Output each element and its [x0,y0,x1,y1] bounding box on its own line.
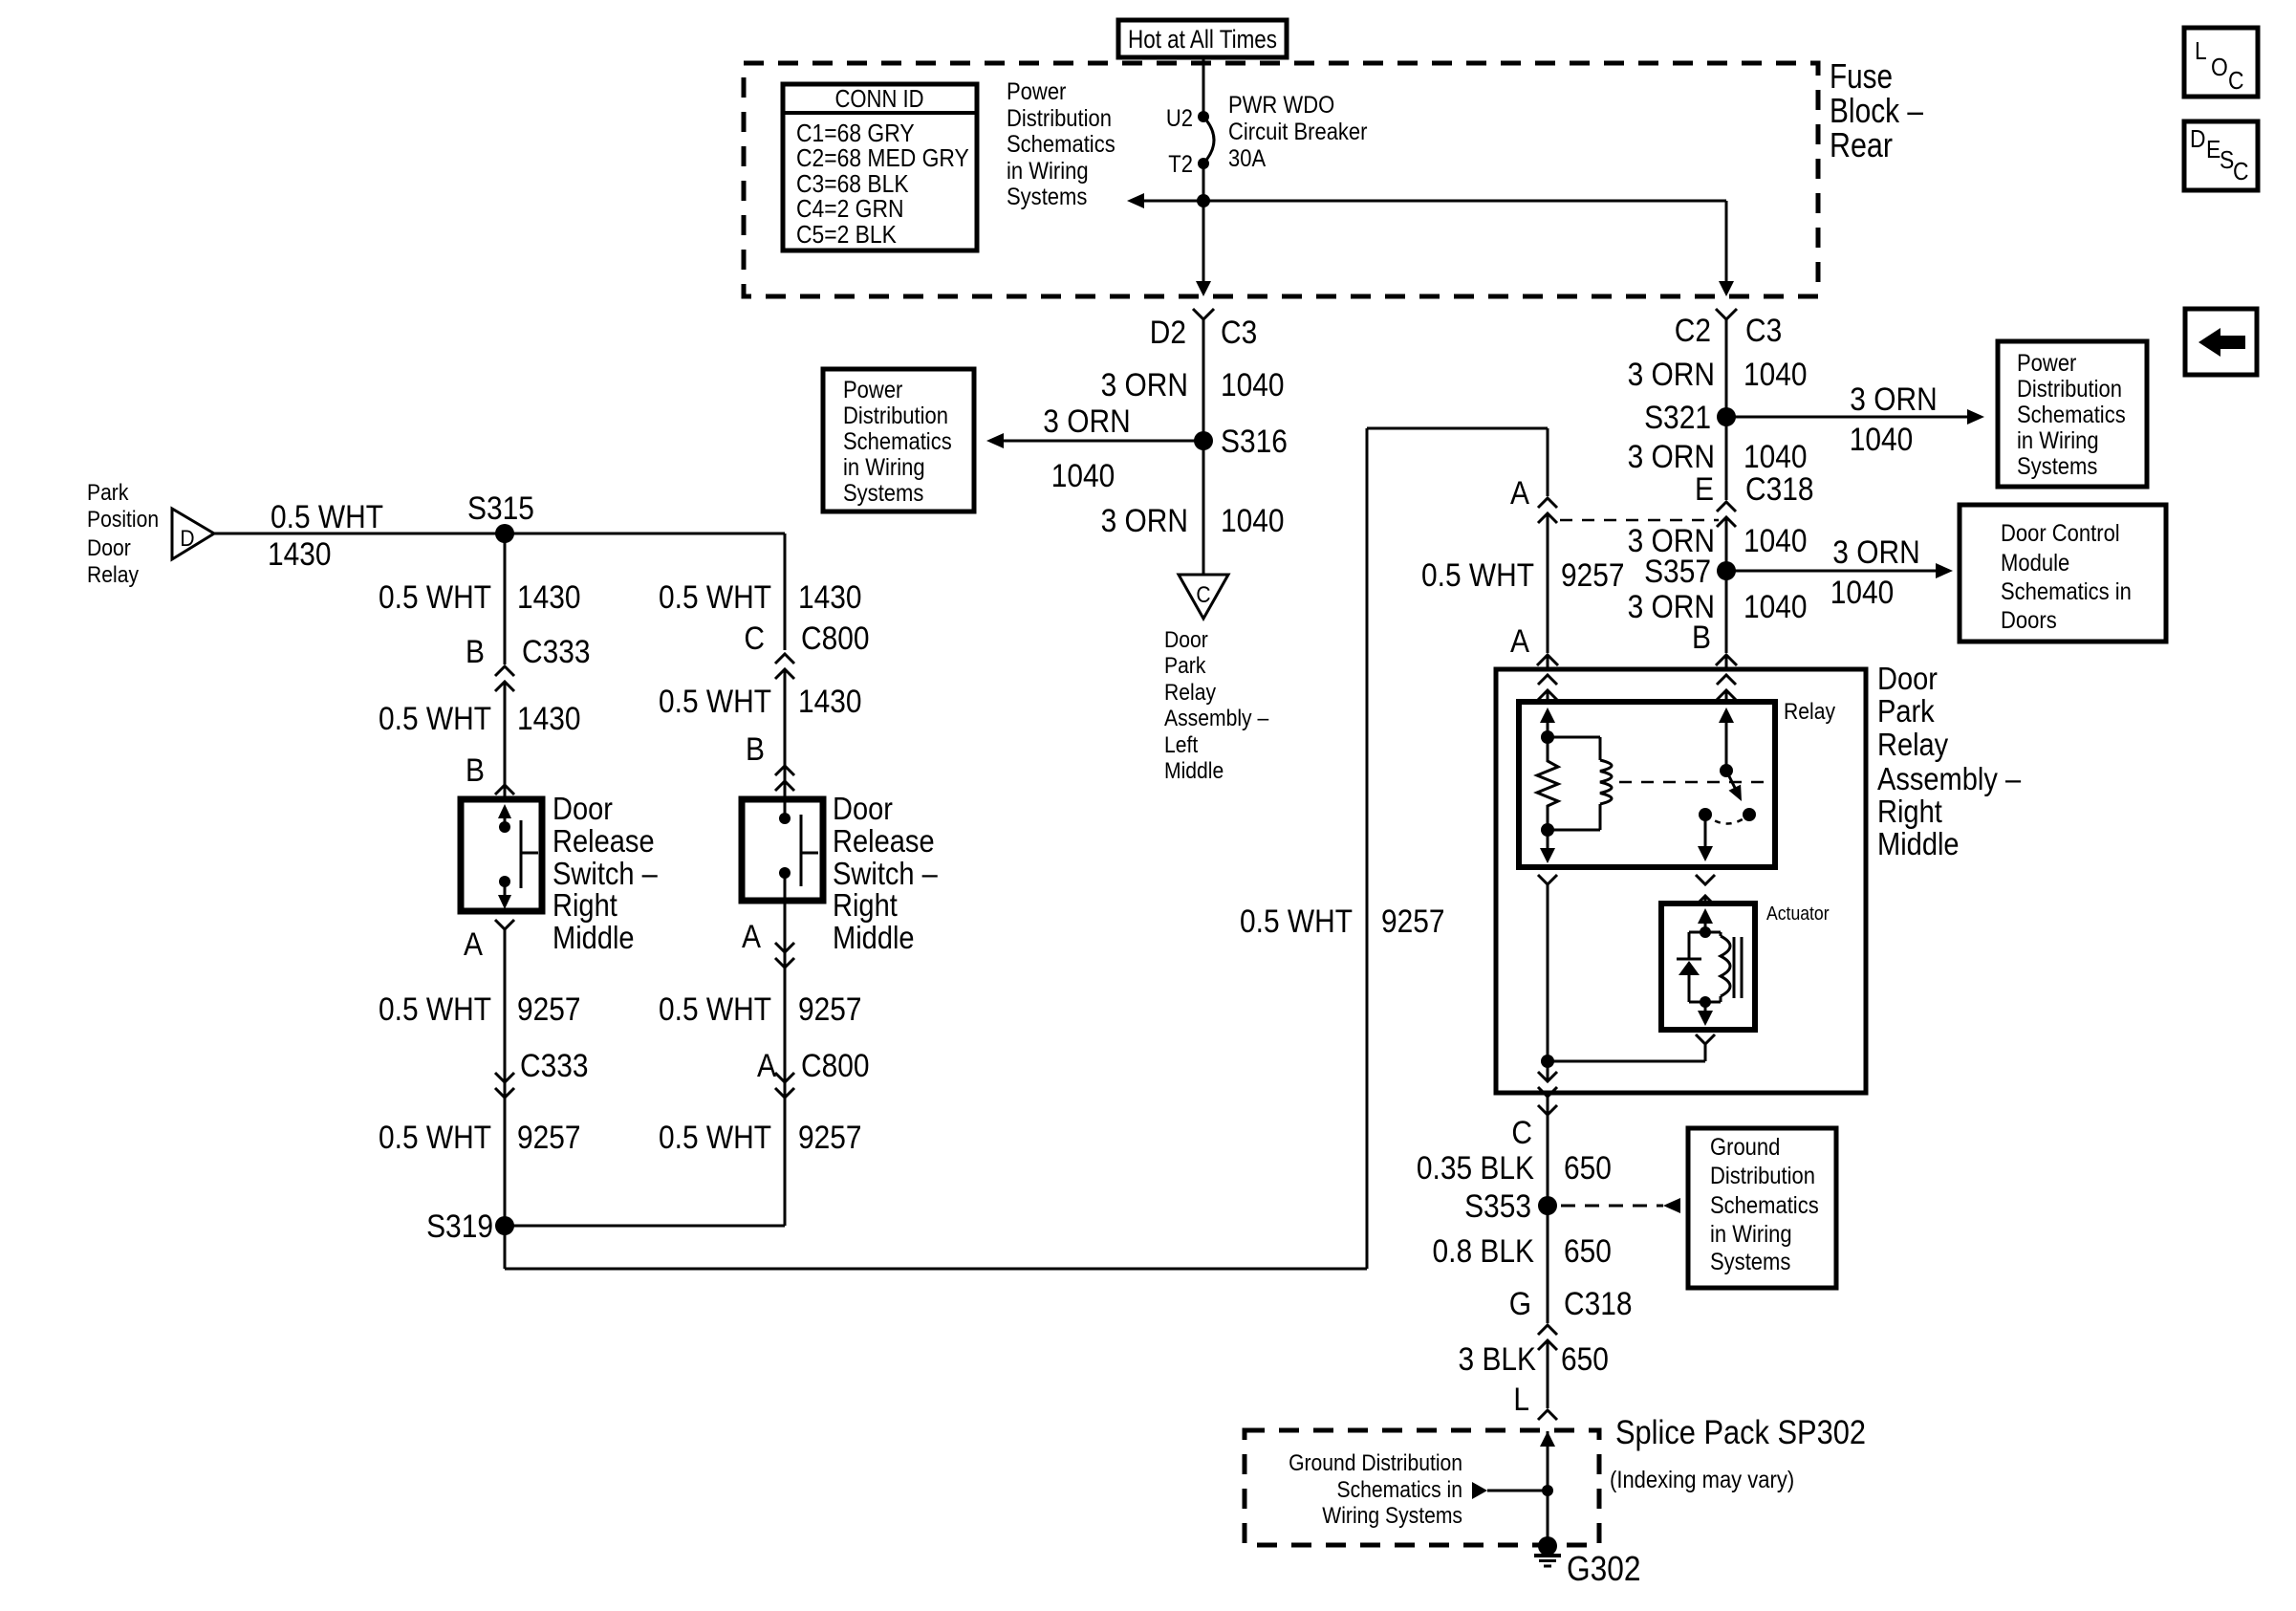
svg-text:S353: S353 [1464,1188,1531,1225]
svg-text:Module: Module [2001,550,2069,577]
nav box back-arrow [2185,309,2257,375]
svg-text:650: 650 [1561,1341,1609,1378]
svg-text:Right: Right [552,887,617,923]
splice pack SP302 dashed boundary [1245,1430,1599,1545]
svg-text:C: C [744,620,765,657]
reference box: Power Distribution Schematics in Wiring Systems (right) [1998,341,2147,487]
relay switch output arrow to box edge [1704,815,1707,846]
off-page connector triangle C (Door Park Relay Assembly - Left Middle) [1179,575,1228,619]
svg-text:E: E [1695,471,1714,508]
svg-text:0.5 WHT: 0.5 WHT [1421,557,1534,594]
svg-text:0.5 WHT: 0.5 WHT [379,579,491,616]
svg-text:S321: S321 [1644,400,1711,436]
svg-text:Schematics: Schematics [843,428,952,455]
svg-text:S316: S316 [1221,424,1288,460]
svg-text:650: 650 [1564,1233,1612,1270]
svg-text:9257: 9257 [517,1120,581,1156]
svg-text:Wiring Systems: Wiring Systems [1322,1503,1462,1529]
switch 2 fixed contacts [779,813,791,824]
svg-text:3 ORN: 3 ORN [1628,357,1715,393]
svg-text:Switch –: Switch – [833,856,938,891]
svg-text:Assembly –: Assembly – [1877,761,2022,796]
svg-text:C: C [1511,1115,1532,1151]
svg-text:Release: Release [833,823,935,859]
svg-text:Distribution: Distribution [1710,1163,1815,1189]
connector C800 chevrons (lower) [775,1073,794,1082]
svg-text:A: A [1510,623,1529,660]
svg-text:Power: Power [1007,78,1066,105]
svg-text:C318: C318 [1564,1286,1633,1322]
splice S316 [1194,431,1213,450]
svg-text:Distribution: Distribution [2017,376,2122,403]
svg-text:Schematics in: Schematics in [2001,578,2132,605]
svg-text:in Wiring: in Wiring [843,454,925,481]
chevron at pin L [1538,1410,1557,1420]
svg-text:0.8 BLK: 0.8 BLK [1433,1233,1535,1270]
svg-text:Power: Power [2017,350,2076,377]
svg-text:0.5 WHT: 0.5 WHT [659,1120,771,1156]
chevron above switch 1 [495,785,514,795]
connector chevron below fuse block (right leg) [1716,309,1737,319]
actuator top junction [1700,926,1711,938]
actuator box [1661,903,1755,1030]
wire: S321 down to connector C318 pin E [1725,417,1728,500]
svg-text:Relay: Relay [87,562,139,588]
svg-text:C333: C333 [522,634,591,670]
svg-text:L: L [2195,36,2207,65]
svg-text:Door: Door [87,535,131,561]
wire: junction to fuse block output C2 (right leg) [1203,200,1726,203]
svg-text:S357: S357 [1644,554,1711,590]
svg-text:3 ORN: 3 ORN [1850,381,1937,418]
assembly internal connector chevrons (pin B side) [1717,675,1736,685]
svg-text:Systems: Systems [843,480,923,507]
splice S319 [495,1216,514,1235]
wire: S357 to Door Control Module Schematics box [1726,570,1938,573]
arrow crossing fuse block boundary (right leg) [1719,281,1734,296]
splice S315 [495,524,514,543]
relay switch common pivot [1720,764,1733,777]
svg-text:9257: 9257 [798,991,862,1028]
actuator feed wire with up arrow [1704,919,1707,932]
svg-text:C: C [1196,582,1210,608]
actuator clamp diode [1689,931,1705,934]
svg-text:Ground: Ground [1710,1134,1780,1161]
wire: C800 to door release switch 2 [784,669,787,818]
svg-text:L: L [1513,1382,1529,1418]
wire: branch down to connector C800 [784,533,787,650]
svg-text:Relay: Relay [1877,727,1949,762]
wire: triangle D to S315 [214,533,505,535]
svg-text:Middle: Middle [833,920,915,955]
connector C333 chevrons (lower) [495,1073,514,1082]
power feed box "Hot at All Times" [1118,20,1287,57]
svg-text:in Wiring: in Wiring [1710,1221,1792,1248]
chevron at pin B [1716,655,1737,665]
svg-text:Door: Door [552,791,613,826]
chevron below assembly output C [1538,1105,1557,1115]
svg-text:0.5 WHT: 0.5 WHT [379,1120,491,1156]
svg-text:C: C [2228,66,2244,95]
chevrons below switch 2 [775,943,794,952]
wire: switch 2 column to S319 [505,1225,785,1228]
svg-text:B: B [466,634,485,670]
svg-text:T2: T2 [1168,151,1193,178]
svg-text:0.5 WHT: 0.5 WHT [1240,903,1353,940]
circuit breaker PWR WDO 30A [1198,111,1209,122]
svg-text:Ground Distribution: Ground Distribution [1289,1450,1462,1476]
relay coil feed wire with up arrow [1547,723,1549,737]
svg-text:S319: S319 [426,1208,493,1245]
wire: riser from S319 loop to relay assembly pin A [1367,427,1548,430]
svg-text:C2=68 MED GRY: C2=68 MED GRY [796,143,969,172]
wire: relay coil output down to assembly output C [1538,875,1557,884]
svg-text:3 ORN: 3 ORN [1101,367,1188,403]
ground G302 [1538,1536,1557,1556]
actuator solenoid coil [1705,931,1721,934]
svg-text:Systems: Systems [2017,453,2097,480]
svg-text:1040: 1040 [1744,357,1808,393]
wire: S321 to Power Distribution Schematics box (right arrow) [1726,416,1969,419]
relay coil output arrow to box edge [1547,830,1549,850]
wire: S357 down to relay assembly pin B [1725,571,1728,653]
svg-text:D: D [180,526,194,552]
svg-text:in Wiring: in Wiring [2017,427,2099,454]
relay coil winding [1548,736,1600,739]
svg-text:0.5 WHT: 0.5 WHT [659,991,771,1028]
connector pair between relay switch and actuator [1696,875,1715,884]
svg-text:Systems: Systems [1007,184,1087,210]
connector C800 chevrons [775,654,794,664]
svg-text:Right: Right [1877,794,1942,829]
svg-text:Park: Park [1164,653,1206,679]
svg-text:in Wiring: in Wiring [1007,158,1089,185]
svg-text:(Indexing may vary): (Indexing may vary) [1610,1467,1794,1493]
switch 1 fixed contacts [498,804,511,818]
svg-text:Door Control: Door Control [2001,520,2120,547]
svg-text:Middle: Middle [1877,826,1960,861]
dashed throw arc between contacts [1705,815,1749,824]
svg-text:Switch –: Switch – [552,856,658,891]
door release switch 2 box [742,799,823,901]
svg-text:1040: 1040 [1221,503,1285,539]
svg-text:Door: Door [833,791,893,826]
switch 1 plunger [520,820,523,888]
connector C318 chevrons (pin E) [1717,502,1736,512]
svg-text:1040: 1040 [1744,439,1808,475]
svg-text:C318: C318 [1745,471,1814,508]
svg-text:G: G [1509,1286,1531,1322]
splice S353 [1538,1196,1557,1215]
svg-text:S: S [2220,145,2234,174]
svg-text:1430: 1430 [798,684,862,720]
actuator core bars [1733,937,1736,998]
door park relay assembly - right middle box [1496,669,1866,1093]
svg-text:Assembly –: Assembly – [1164,706,1269,731]
nav box LOC [2184,28,2258,97]
dashed actuation link from coil to switch [1619,781,1766,784]
splice S321 [1717,407,1736,426]
svg-text:PWR WDO: PWR WDO [1228,92,1334,119]
svg-text:Middle: Middle [1164,758,1224,784]
relay switch common feed with up arrow [1725,719,1728,771]
svg-text:B: B [466,752,485,789]
door release switch 1 box [461,799,542,911]
svg-text:C: C [2233,157,2249,185]
svg-text:A: A [464,926,483,963]
svg-text:D: D [2190,124,2206,153]
svg-text:A: A [1510,475,1529,512]
relay switch contact (thrown) [1743,808,1756,821]
svg-text:1430: 1430 [517,701,581,737]
svg-text:Circuit Breaker: Circuit Breaker [1228,119,1368,145]
svg-text:9257: 9257 [798,1120,862,1156]
svg-text:A: A [742,919,761,955]
svg-text:Relay: Relay [1164,680,1216,706]
svg-text:Splice Pack SP302: Splice Pack SP302 [1615,1414,1866,1451]
svg-text:C2: C2 [1675,313,1711,349]
chevron below switch 1 [495,920,514,929]
svg-text:3 ORN: 3 ORN [1101,503,1188,539]
fuse block - rear dashed boundary [744,63,1818,296]
nav box DESC [2184,121,2258,190]
wire: S353 down to connector C318 pin G [1547,1206,1549,1323]
wire: into splice pack with up arrow [1547,1431,1549,1546]
wire: S316 down to off-page triangle C [1202,441,1205,575]
svg-text:0.5 WHT: 0.5 WHT [271,499,383,535]
svg-text:Position: Position [87,507,159,533]
svg-text:Distribution: Distribution [1007,105,1112,132]
svg-text:C800: C800 [801,620,870,657]
svg-text:C3: C3 [1745,313,1782,349]
svg-text:B: B [1692,620,1711,656]
svg-text:1430: 1430 [268,536,332,573]
reference box: Power Distribution Schematics in Wiring Systems (left) [823,369,974,512]
svg-text:Relay: Relay [1784,699,1835,725]
svg-text:Distribution: Distribution [843,403,948,429]
arrow to Power Distribution Schematics (inside fuse block) [1143,200,1203,203]
junction of breaker output [1197,194,1210,207]
svg-text:1040: 1040 [1221,367,1285,403]
svg-text:Release: Release [552,823,655,859]
svg-text:Right: Right [833,887,898,923]
relay coil bottom junction [1541,823,1554,837]
relay box [1519,702,1775,867]
svg-text:Schematics in: Schematics in [1337,1477,1463,1503]
svg-text:Fuse: Fuse [1830,56,1893,96]
dashed tie line between pin A and pin E connectors [1560,519,1719,522]
off-page connector triangle D (Park Position Door Relay) [172,509,214,559]
wire: S315 down to connector C333 [504,533,507,664]
svg-text:9257: 9257 [1561,557,1625,594]
switch 2 plunger [800,815,803,886]
svg-text:S315: S315 [467,490,534,527]
svg-text:C333: C333 [520,1048,589,1084]
svg-text:C5=2 BLK: C5=2 BLK [796,220,897,249]
svg-text:9257: 9257 [1381,903,1445,940]
svg-text:CONN ID: CONN ID [835,84,924,113]
svg-text:3 ORN: 3 ORN [1832,534,1919,571]
svg-text:1040: 1040 [1744,589,1808,625]
svg-text:A: A [757,1048,776,1084]
svg-text:Schematics: Schematics [2017,402,2126,428]
svg-text:Schematics: Schematics [1007,131,1116,158]
svg-text:Actuator: Actuator [1766,903,1830,925]
chevron at pin A (lower) [1537,655,1558,665]
svg-text:Systems: Systems [1710,1249,1790,1275]
wire: C318 pin G down to splice pack [1547,1340,1549,1408]
svg-text:Doors: Doors [2001,607,2057,634]
reference box: Ground Distribution Schematics in Wiring Systems [1688,1128,1836,1288]
wire: breaker T2 down to junction [1202,163,1205,201]
svg-text:Door: Door [1164,627,1208,653]
svg-text:E: E [2206,135,2220,163]
wire: C318 pin E to S357 [1725,517,1728,571]
junction: coil return meets actuator return [1541,1055,1554,1068]
wire: S316 to Power Distribution Schematics box (left arrow) [1002,440,1203,443]
svg-text:O: O [2211,53,2228,81]
svg-text:B: B [746,731,765,768]
svg-text:Middle: Middle [552,920,635,955]
svg-text:1430: 1430 [517,579,581,616]
svg-text:650: 650 [1564,1150,1612,1186]
svg-text:0.5 WHT: 0.5 WHT [379,991,491,1028]
svg-text:0.5 WHT: 0.5 WHT [379,701,491,737]
svg-text:D2: D2 [1150,315,1186,351]
svg-text:Park: Park [87,480,129,506]
connector ID table CONN ID [783,84,977,250]
dashed reference link from S353 to Ground Distribution box [1561,1205,1663,1208]
actuator bottom junction [1700,996,1711,1008]
svg-text:30A: 30A [1228,145,1266,172]
svg-text:Block –: Block – [1830,91,1923,130]
svg-text:C4=2 GRN: C4=2 GRN [796,194,904,223]
svg-text:Hot at All Times: Hot at All Times [1128,25,1277,54]
connector C318 chevrons (pin G) [1538,1325,1557,1335]
svg-text:G302: G302 [1567,1549,1641,1588]
arrow crossing fuse block boundary (left leg) [1196,281,1211,296]
svg-text:Rear: Rear [1830,125,1893,164]
svg-text:1040: 1040 [1051,458,1116,494]
svg-text:1430: 1430 [798,579,862,616]
svg-text:1040: 1040 [1830,575,1895,611]
connector chevron below fuse block (left leg) [1193,309,1214,319]
svg-text:3 ORN: 3 ORN [1043,403,1130,440]
relay coil top junction [1541,730,1554,744]
svg-text:9257: 9257 [517,991,581,1028]
wire: S315 to right branch (switch 2 column) [505,533,785,535]
svg-text:U2: U2 [1166,105,1193,132]
svg-text:C3: C3 [1221,315,1257,351]
relay switch contact (normally open) [1699,808,1712,821]
wire: S319 loop to 0.5 WHT riser [504,1226,507,1269]
svg-text:3 ORN: 3 ORN [1628,439,1715,475]
actuator return arrow to box edge [1704,1002,1707,1012]
chevrons above switch 2 [775,766,794,775]
wire: Hot at All Times to circuit breaker terminal U2 [1202,57,1205,117]
svg-text:0.35 BLK: 0.35 BLK [1417,1150,1534,1186]
svg-text:3 BLK: 3 BLK [1459,1341,1537,1378]
svg-text:0.5 WHT: 0.5 WHT [659,579,771,616]
svg-text:1040: 1040 [1744,523,1808,559]
svg-text:Door: Door [1877,661,1938,696]
relay resistor (coil suppression) [1537,737,1558,830]
arrow from note to ground wire [1472,1482,1487,1499]
svg-text:0.5 WHT: 0.5 WHT [659,684,771,720]
svg-text:Power: Power [843,377,902,403]
wire: assembly output C through box edge [1547,1061,1549,1081]
chevron at pin A (upper) [1538,498,1557,508]
assembly internal connector chevrons (pin A side) [1538,675,1557,685]
reference box: Door Control Module Schematics in Doors [1960,505,2166,642]
wire: pin A connector down to relay assembly [1547,513,1549,653]
wire: actuator return to junction [1696,1034,1715,1044]
svg-text:Schematics: Schematics [1710,1192,1819,1219]
wire: junction down to fuse block output D2 (left leg) [1202,201,1205,283]
svg-text:Left: Left [1164,732,1198,758]
svg-text:1040: 1040 [1850,422,1914,458]
svg-text:C800: C800 [801,1048,870,1084]
connector C333 chevrons [495,666,514,676]
relay switch movable arm [1726,771,1735,788]
splice S357 [1717,561,1736,580]
svg-text:Park: Park [1877,693,1935,729]
wire: C333 to door release switch 1 [504,682,507,799]
